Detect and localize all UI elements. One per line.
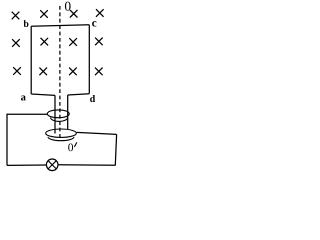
- brush wire left (from upper ring to external circuit): [7, 113, 48, 115]
- field cross row2 col3: [69, 38, 77, 46]
- label b (top-left corner of coil): [24, 20, 29, 27]
- coil loop abcd: bottom edge right segment: [68, 94, 90, 95]
- field cross row1 col3: [70, 10, 78, 18]
- label O (top of rotation axis): [65, 2, 71, 11]
- external circuit bottom wire left of lamp: [7, 164, 46, 166]
- field cross row3 col4: [95, 68, 103, 76]
- brush wire right (from lower ring to external circuit): [77, 132, 117, 134]
- field cross row1 col1: [12, 12, 20, 20]
- coil loop abcd: top edge: [31, 25, 89, 26]
- slip ring 1 (upper): [47, 110, 69, 118]
- field cross row3 col3: [69, 68, 77, 76]
- field cross row1 col4: [96, 9, 104, 17]
- field cross row3 col2: [39, 68, 47, 76]
- field cross row2 col1: [12, 39, 20, 47]
- coil loop abcd: bottom edge left segment: [31, 94, 55, 95]
- field cross row2 col4: [95, 38, 103, 46]
- prime mark of O': [74, 142, 76, 147]
- field cross row3 col1: [13, 67, 21, 75]
- slip ring 2 (lower): [46, 129, 77, 137]
- rotation axis OO' (dashed): [59, 6, 61, 140]
- coil loop abcd: right edge: [88, 25, 90, 94]
- slip ring 1 lower rim arc: [51, 118, 68, 122]
- label O' (bottom of rotation axis): [68, 144, 73, 152]
- coil lead left (to slip ring): [54, 95, 56, 133]
- label a (bottom-left corner of coil): [21, 95, 26, 100]
- field cross row2 col2: [41, 38, 49, 46]
- label d (bottom-right corner of coil): [90, 95, 95, 102]
- slip ring 2 lower rim arc: [48, 137, 74, 141]
- lamp (circle with cross): [46, 159, 58, 171]
- field cross row1 col2: [40, 10, 48, 18]
- label c (top-right corner of coil): [92, 21, 96, 26]
- coil lead right (to slip ring): [67, 95, 69, 129]
- external circuit right wire: [115, 134, 116, 165]
- external circuit bottom wire right of lamp: [58, 164, 116, 167]
- coil loop abcd: left edge: [30, 26, 32, 94]
- external circuit left wire: [6, 114, 8, 166]
